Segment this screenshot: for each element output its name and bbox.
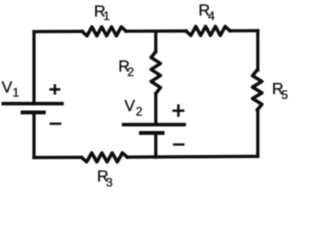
svg-text:V: V — [2, 80, 13, 97]
svg-text:1: 1 — [103, 9, 110, 23]
svg-text:1: 1 — [13, 86, 20, 100]
svg-text:4: 4 — [208, 9, 215, 23]
svg-text:3: 3 — [106, 176, 113, 190]
svg-text:2: 2 — [136, 105, 143, 119]
svg-text:5: 5 — [281, 88, 288, 102]
svg-text:2: 2 — [127, 65, 134, 79]
svg-text:V: V — [124, 98, 135, 115]
